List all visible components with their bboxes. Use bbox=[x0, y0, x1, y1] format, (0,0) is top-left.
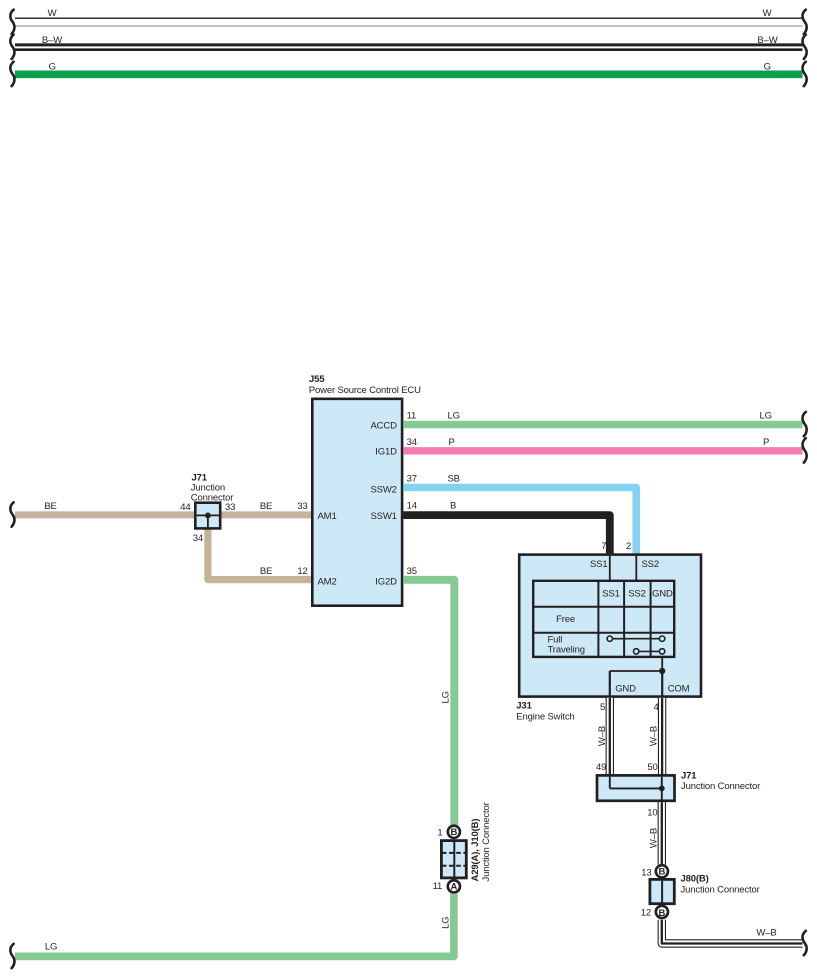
svg-text:SS2: SS2 bbox=[642, 559, 660, 570]
svg-text:G: G bbox=[764, 61, 771, 72]
svg-text:14: 14 bbox=[407, 500, 417, 511]
svg-text:P: P bbox=[763, 437, 769, 448]
svg-text:LG: LG bbox=[760, 411, 772, 422]
svg-text:49: 49 bbox=[596, 762, 606, 773]
svg-text:5: 5 bbox=[600, 702, 605, 713]
svg-text:W–B: W–B bbox=[649, 828, 660, 848]
svg-text:Power Source Control ECU: Power Source Control ECU bbox=[309, 385, 421, 396]
svg-text:AM2: AM2 bbox=[318, 576, 337, 587]
svg-text:11: 11 bbox=[433, 881, 443, 892]
svg-text:SS1: SS1 bbox=[590, 559, 608, 570]
svg-text:SS2: SS2 bbox=[628, 589, 646, 600]
svg-text:J31: J31 bbox=[516, 700, 532, 711]
svg-text:BE: BE bbox=[44, 501, 56, 512]
svg-text:SSW2: SSW2 bbox=[370, 484, 396, 495]
svg-text:37: 37 bbox=[407, 474, 417, 485]
svg-text:SS1: SS1 bbox=[602, 589, 620, 600]
svg-text:Junction Connector: Junction Connector bbox=[681, 781, 760, 792]
svg-text:34: 34 bbox=[407, 437, 417, 448]
svg-text:W: W bbox=[48, 8, 57, 19]
svg-text:B: B bbox=[451, 827, 458, 838]
svg-text:G: G bbox=[49, 61, 56, 72]
svg-text:P: P bbox=[449, 437, 455, 448]
svg-text:Junction Connector: Junction Connector bbox=[481, 802, 492, 881]
svg-text:LG: LG bbox=[448, 411, 460, 422]
svg-text:SB: SB bbox=[448, 474, 460, 485]
svg-text:50: 50 bbox=[647, 762, 657, 773]
svg-text:BE: BE bbox=[260, 501, 272, 512]
svg-text:W: W bbox=[763, 8, 772, 19]
svg-text:B–W: B–W bbox=[757, 35, 777, 46]
svg-text:A29(A), J10(B): A29(A), J10(B) bbox=[470, 819, 481, 882]
svg-text:B: B bbox=[658, 867, 665, 878]
svg-text:W–B: W–B bbox=[649, 726, 660, 746]
svg-text:W–B: W–B bbox=[756, 927, 776, 938]
svg-text:12: 12 bbox=[297, 566, 307, 577]
svg-text:35: 35 bbox=[407, 566, 417, 577]
svg-text:4: 4 bbox=[653, 702, 658, 713]
svg-text:AM1: AM1 bbox=[318, 511, 337, 522]
svg-text:LG: LG bbox=[441, 691, 452, 703]
svg-text:Connector: Connector bbox=[191, 492, 233, 503]
svg-text:A: A bbox=[451, 882, 458, 893]
svg-text:SSW1: SSW1 bbox=[370, 511, 396, 522]
svg-text:J80(B): J80(B) bbox=[681, 874, 709, 885]
svg-text:IG1D: IG1D bbox=[375, 446, 397, 457]
svg-text:BE: BE bbox=[260, 566, 272, 577]
svg-text:33: 33 bbox=[225, 502, 235, 513]
svg-text:B: B bbox=[450, 500, 456, 511]
svg-text:2: 2 bbox=[626, 541, 631, 552]
svg-text:GND: GND bbox=[652, 589, 673, 600]
svg-text:12: 12 bbox=[641, 908, 651, 919]
svg-text:Traveling: Traveling bbox=[548, 645, 585, 656]
svg-text:Engine Switch: Engine Switch bbox=[516, 711, 574, 722]
svg-text:10: 10 bbox=[647, 808, 657, 819]
svg-text:B–W: B–W bbox=[42, 35, 62, 46]
svg-text:COM: COM bbox=[668, 683, 690, 694]
svg-text:LG: LG bbox=[441, 917, 452, 929]
svg-text:GND: GND bbox=[615, 683, 636, 694]
svg-text:11: 11 bbox=[407, 411, 417, 422]
svg-text:33: 33 bbox=[297, 501, 307, 512]
svg-text:LG: LG bbox=[45, 942, 57, 953]
svg-text:34: 34 bbox=[193, 533, 203, 544]
svg-text:13: 13 bbox=[641, 867, 651, 878]
svg-text:44: 44 bbox=[180, 502, 190, 513]
svg-text:J55: J55 bbox=[309, 374, 325, 385]
svg-text:ACCD: ACCD bbox=[370, 420, 397, 431]
svg-text:Junction Connector: Junction Connector bbox=[681, 885, 760, 896]
svg-text:J71: J71 bbox=[681, 771, 697, 782]
svg-text:Free: Free bbox=[556, 614, 575, 625]
svg-text:7: 7 bbox=[601, 541, 606, 552]
svg-text:W–B: W–B bbox=[597, 726, 608, 746]
svg-text:1: 1 bbox=[437, 828, 442, 839]
svg-text:B: B bbox=[658, 908, 665, 919]
svg-text:IG2D: IG2D bbox=[375, 576, 397, 587]
